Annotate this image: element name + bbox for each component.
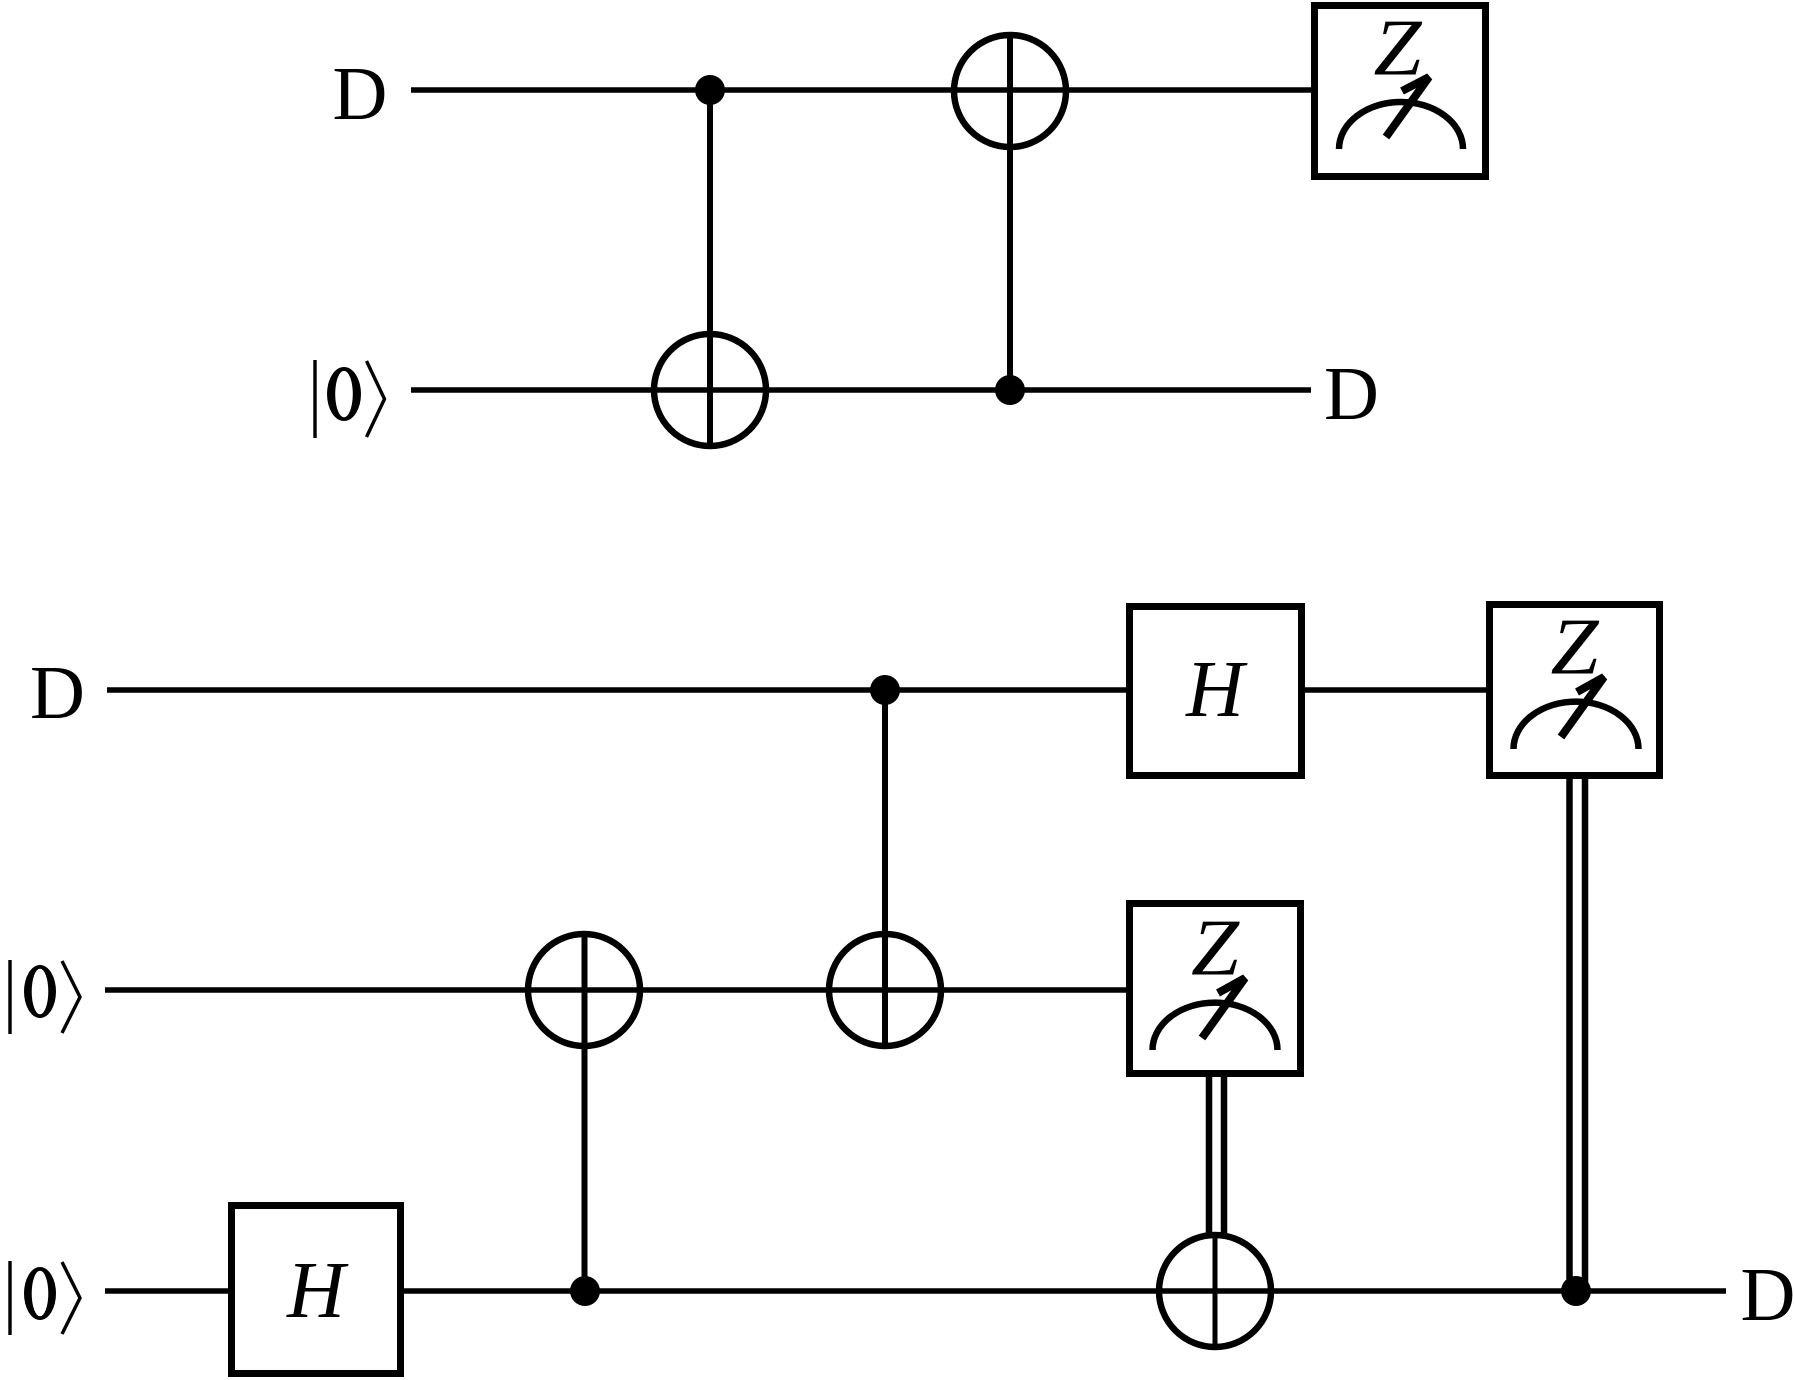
measurement box M2 (Z-basis meter, q1) bbox=[1490, 603, 1660, 775]
wire q2 (bottom wire of circuit 1) bbox=[411, 387, 1311, 393]
CNOT-2 target on q1 bbox=[954, 35, 1066, 147]
gate H box (q1) bbox=[1130, 607, 1302, 776]
svg-text:Z: Z bbox=[1550, 603, 1599, 691]
svg-text:Z: Z bbox=[1373, 4, 1422, 92]
svg-text:H: H bbox=[286, 1247, 349, 1335]
wire q1 (top wire of circuit 2) bbox=[107, 687, 1126, 693]
wire CNOT-2 vertical link bbox=[1007, 34, 1013, 390]
CNOT-2 control dot on q2 bbox=[995, 375, 1025, 405]
wire q3 main bbox=[404, 1288, 1726, 1294]
CNOT-4 target on q2 bbox=[829, 934, 941, 1046]
measurement box M3 (Z-basis meter, q2) bbox=[1130, 904, 1301, 1074]
svg-text:D: D bbox=[333, 52, 388, 136]
wire CNOT-4 vertical link (q1 control to q2 target) bbox=[882, 690, 888, 1047]
wire q3 left stub bbox=[105, 1288, 228, 1294]
node |0> (input label, qubit 2) bbox=[315, 360, 385, 438]
node |0> (input label, qubit 2) bbox=[10, 960, 80, 1034]
classically-controlled X target on q3 bbox=[1159, 1235, 1271, 1347]
svg-text:H: H bbox=[1185, 646, 1248, 734]
CNOT-1 control dot on q1 bbox=[695, 75, 725, 105]
node |0> (input label, qubit 3) bbox=[10, 1261, 80, 1335]
CNOT-3 control dot on q3 bbox=[570, 1276, 600, 1306]
wire q2 (middle wire of circuit 2) bbox=[105, 987, 1127, 993]
wire q1 between H and meter bbox=[1305, 687, 1486, 693]
classical double wire (M2 to control dot on q3) bbox=[1570, 779, 1586, 1284]
CNOT-4 control dot on q1 bbox=[870, 675, 900, 705]
CNOT-1 target on q2 bbox=[654, 334, 766, 446]
wire X-target internal vertical bbox=[1213, 1235, 1218, 1347]
svg-text:D: D bbox=[1741, 1253, 1795, 1337]
classical double wire (M3 to X-target on q3) bbox=[1209, 1077, 1224, 1233]
wire CNOT-1 vertical link bbox=[707, 90, 713, 448]
gate H box (q3) bbox=[232, 1206, 401, 1374]
svg-text:D: D bbox=[1324, 352, 1379, 436]
CNOT-3 target on q2 bbox=[528, 934, 640, 1046]
measurement box M1 (Z-basis meter, q1) bbox=[1315, 4, 1486, 176]
svg-text:Z: Z bbox=[1191, 904, 1240, 992]
classical control dot on q3 bbox=[1561, 1276, 1591, 1306]
svg-text:D: D bbox=[30, 651, 85, 735]
wire q1 (top wire of circuit 1) bbox=[411, 87, 1311, 93]
wire CNOT-3 vertical link (q3 control to q2 target) bbox=[582, 935, 588, 1291]
